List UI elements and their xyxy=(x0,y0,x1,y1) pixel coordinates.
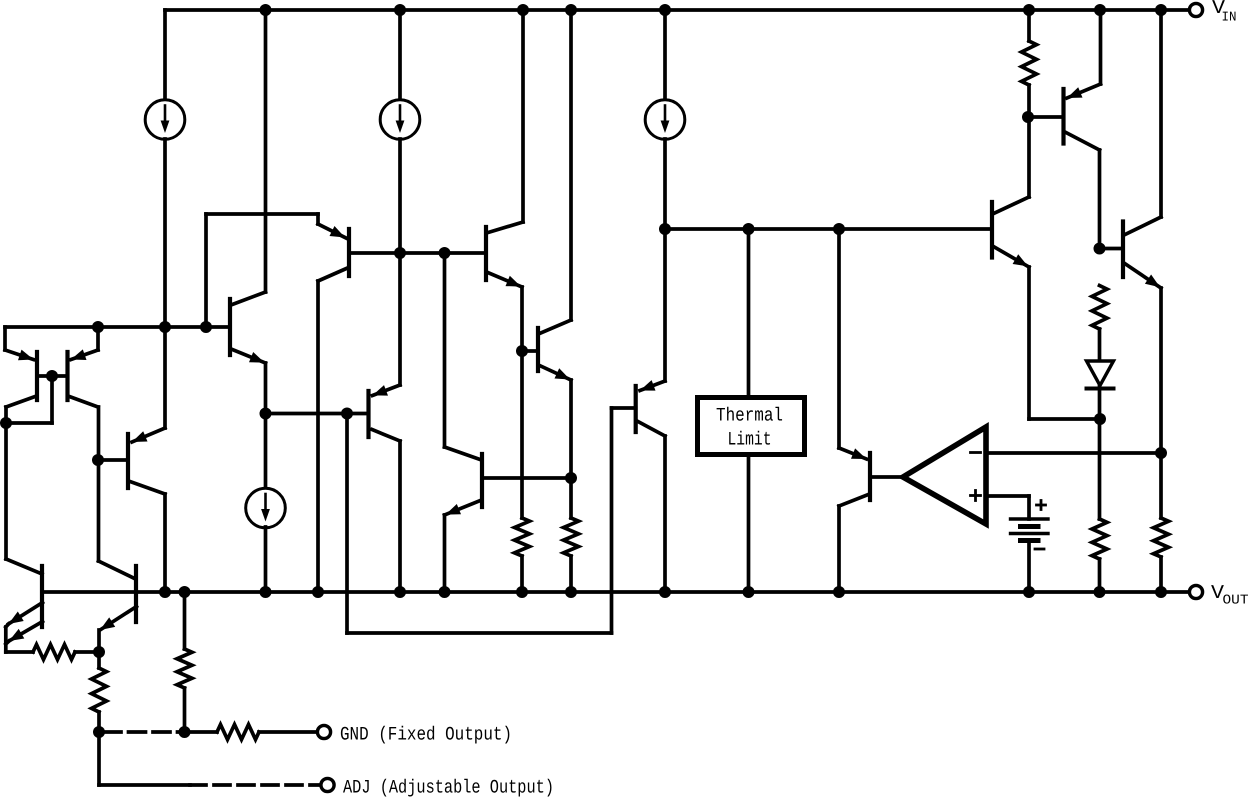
svg-text:ADJ (Adjustable Output): ADJ (Adjustable Output) xyxy=(343,777,554,798)
svg-text:GND (Fixed Output): GND (Fixed Output) xyxy=(340,724,512,746)
svg-text:IN: IN xyxy=(1222,11,1237,26)
svg-text:OUT: OUT xyxy=(1223,594,1249,609)
svg-text:Limit: Limit xyxy=(728,429,772,451)
svg-text:Thermal: Thermal xyxy=(716,405,783,427)
